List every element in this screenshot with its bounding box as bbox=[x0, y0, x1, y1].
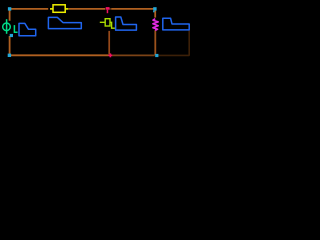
resistor R1 lead right bbox=[65, 8, 68, 10]
wire vertical drop at x109 bbox=[108, 31, 110, 54]
wire right rail dark segment bbox=[188, 31, 190, 56]
probe P1 stem bbox=[107, 10, 109, 14]
resistor R2 body bbox=[105, 19, 110, 26]
wire left rail lower segment bbox=[9, 36, 11, 56]
resistor R1 lead left bbox=[50, 8, 53, 10]
wire middle branch lower segment bbox=[154, 30, 156, 55]
resistor R1 body bbox=[53, 5, 65, 13]
voltage source V1 stem bbox=[6, 19, 8, 34]
wire top rail middle segment bbox=[69, 8, 105, 10]
resistor R3 zigzag body bbox=[153, 19, 158, 31]
voltage source V1 terminal bracket bbox=[14, 25, 17, 32]
wire bottom rail bright segment bbox=[9, 54, 108, 56]
background bbox=[0, 0, 200, 65]
node junction bottom middle bbox=[155, 54, 158, 57]
wire bottom rail dark segment bbox=[157, 54, 189, 56]
component U3 boot outline bbox=[116, 17, 137, 30]
voltage source V1 circle bbox=[3, 23, 11, 31]
wire middle branch upper stub bbox=[154, 10, 156, 18]
component U4 boot outline bbox=[163, 18, 189, 30]
probe P1 bar bbox=[106, 7, 110, 10]
probe P2 cross marker bottom junction bbox=[110, 53, 112, 57]
node junction TR corner bbox=[153, 7, 156, 10]
wire left rail upper segment bbox=[9, 8, 11, 21]
resistor R2 lead with elbow bbox=[100, 22, 115, 28]
node junction left mid bbox=[10, 34, 13, 37]
wire bottom rail medium segment bbox=[112, 54, 155, 56]
node junction TL corner bbox=[8, 7, 11, 10]
wire top rail right segment bbox=[111, 8, 153, 10]
component U2 boot outline bbox=[48, 17, 81, 28]
node junction BL corner bbox=[8, 54, 11, 57]
wire top rail dark segment right of probe bbox=[109, 8, 111, 10]
node tick below TR corner bbox=[153, 11, 155, 13]
wire top rail left segment bbox=[10, 8, 49, 10]
component U1 boot outline bbox=[19, 23, 36, 35]
